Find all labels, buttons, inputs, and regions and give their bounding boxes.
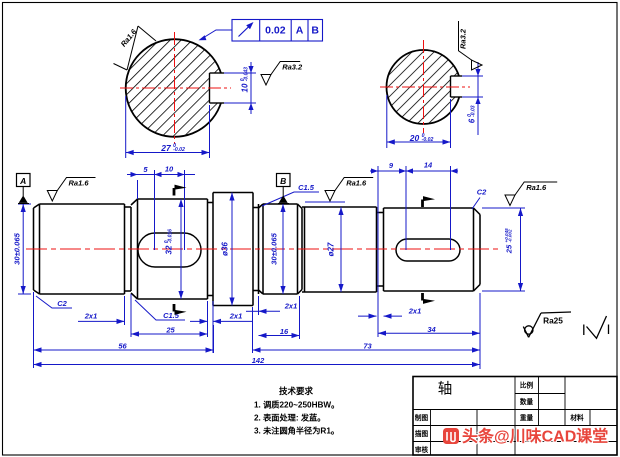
svg-text:32: 32 (165, 245, 174, 254)
svg-text:2x1: 2x1 (84, 312, 98, 321)
svg-text:C1.5: C1.5 (298, 183, 315, 192)
svg-text:材料: 材料 (569, 413, 584, 422)
svg-text:Ra1.6: Ra1.6 (346, 179, 367, 188)
svg-text:10: 10 (165, 165, 174, 174)
svg-text:Ra3.2: Ra3.2 (459, 28, 468, 49)
svg-text:3. 未注圆角半径为R1。: 3. 未注圆角半径为R1。 (254, 426, 339, 436)
svg-text:34: 34 (427, 325, 436, 334)
svg-text:27: 27 (160, 143, 172, 153)
svg-text:B: B (311, 25, 319, 37)
svg-text:25: 25 (505, 244, 514, 254)
svg-text:A: A (19, 176, 26, 186)
svg-text:25: 25 (165, 326, 175, 335)
svg-text:6: 6 (468, 118, 477, 123)
svg-text:数量: 数量 (520, 397, 534, 406)
svg-text:2x1: 2x1 (284, 302, 298, 311)
svg-text:-0.043: -0.043 (244, 67, 250, 81)
svg-text:Ra25: Ra25 (543, 316, 563, 326)
svg-text:制图: 制图 (415, 413, 429, 422)
svg-text:描图: 描图 (415, 429, 429, 438)
svg-text:1. 调质220~250HBW。: 1. 调质220~250HBW。 (254, 400, 339, 410)
svg-text:2x1: 2x1 (229, 312, 243, 321)
svg-text:Ra3.2: Ra3.2 (282, 63, 303, 72)
svg-text:2. 表面处理: 发蓝。: 2. 表面处理: 发蓝。 (254, 413, 325, 423)
svg-text:30±0.065: 30±0.065 (270, 232, 279, 264)
svg-text:14: 14 (424, 161, 433, 170)
svg-text:-0.002: -0.002 (508, 229, 513, 242)
svg-text:30±0.065: 30±0.065 (13, 232, 22, 264)
svg-text:ø27: ø27 (327, 242, 336, 256)
svg-text:2x1: 2x1 (408, 307, 422, 316)
svg-text:142: 142 (252, 356, 265, 365)
svg-text:56: 56 (118, 342, 127, 351)
svg-text:10: 10 (241, 83, 250, 92)
svg-text:比例: 比例 (520, 381, 534, 390)
svg-text:-0.016: -0.016 (168, 229, 174, 243)
svg-text:-0.03: -0.03 (471, 105, 477, 117)
svg-text:Ra1.6: Ra1.6 (69, 179, 90, 188)
svg-text:重量: 重量 (520, 413, 534, 422)
svg-text:73: 73 (363, 342, 372, 351)
svg-text:-0.02: -0.02 (173, 147, 185, 153)
svg-text:16: 16 (280, 327, 289, 336)
svg-text:轴: 轴 (438, 381, 453, 398)
svg-text:头条@川味CAD课堂: 头条@川味CAD课堂 (462, 427, 608, 446)
svg-text:A: A (296, 25, 304, 37)
svg-text:审核: 审核 (415, 445, 429, 454)
svg-text:20: 20 (409, 133, 420, 143)
svg-text:C2: C2 (57, 299, 67, 308)
svg-text:技术要求: 技术要求 (279, 386, 314, 396)
svg-text:0.02: 0.02 (265, 25, 286, 37)
svg-text:-0.02: -0.02 (422, 137, 434, 143)
svg-text:Ra1.6: Ra1.6 (526, 183, 547, 192)
svg-text:B: B (280, 176, 286, 186)
svg-text:C2: C2 (477, 188, 487, 197)
svg-text:ø36: ø36 (221, 242, 230, 256)
